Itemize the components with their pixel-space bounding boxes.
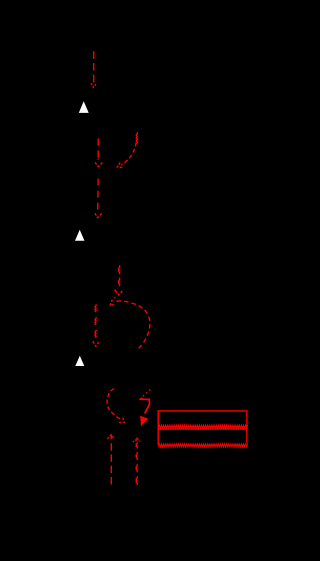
white cone triangle T3 [75, 356, 84, 366]
white cone triangle T2 [75, 230, 85, 241]
big dashed loop arc W2 [110, 300, 150, 349]
wavy dashed arrow D4 [114, 265, 123, 295]
bottom wavy dashed arrow L2 (points up) [133, 438, 141, 485]
dashed arrow D3 [95, 179, 102, 218]
white cone triangle T1 [79, 101, 89, 113]
goal box (red rectangle with zigzag net lines) [158, 411, 247, 447]
dashed arrow D1 (top vertical pass arrow) [91, 51, 96, 87]
solid elbow shot arrow [140, 390, 150, 427]
wavy curved arrow W1 [117, 132, 137, 167]
wavy dashed arrow Z1 [92, 304, 99, 346]
dashed arrow D2 [95, 138, 103, 166]
bottom dashed arrow L1 (points up) [107, 435, 114, 486]
dashed C-curve arrow [107, 389, 124, 423]
